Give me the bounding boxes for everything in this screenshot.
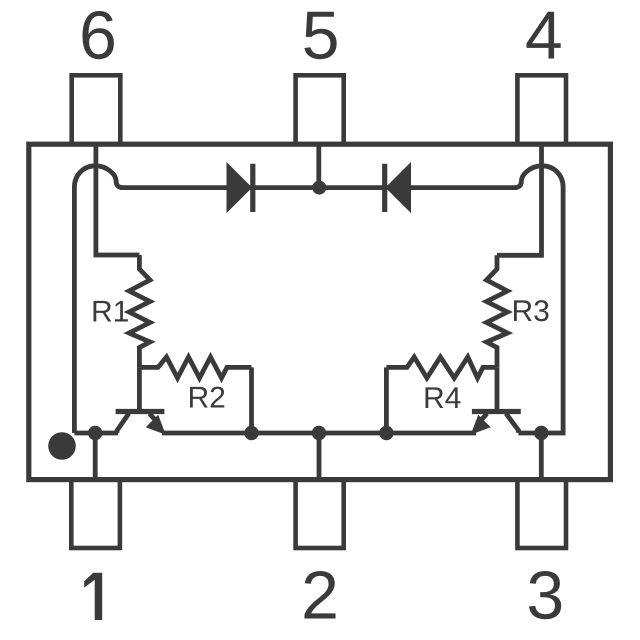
wire pin 1 lead — [93, 433, 98, 480]
wire Q2 base lead — [495, 367, 500, 411]
label R2 — [190, 387, 224, 408]
node R4-emitter junction — [379, 426, 393, 440]
pin 2 pad — [296, 480, 344, 548]
resistor R1 — [129, 255, 150, 367]
wire pin 4 lead with jog to R3 — [497, 144, 542, 255]
node C1 junction — [88, 426, 102, 440]
label R1 — [94, 301, 128, 322]
transistor Q2 collector lead — [506, 414, 519, 433]
wire collector bus right — [518, 431, 541, 436]
wire pin 2 lead — [317, 433, 322, 480]
diode D1 triangle — [228, 166, 250, 210]
transistor Q2 base bar — [472, 409, 521, 414]
pin number 4 — [527, 12, 561, 59]
resistor R2 — [141, 357, 252, 378]
wire pin 3 lead — [539, 433, 544, 480]
wire crossover bridge right (collector to diode bus) — [514, 166, 563, 433]
wire pin 5 lead — [316, 144, 321, 187]
pin 6 pad — [72, 75, 121, 144]
node R2-emitter junction — [244, 426, 258, 440]
pin number 1 — [84, 573, 102, 620]
pin 1 pad — [71, 480, 120, 548]
transistor Q1 emitter arrow — [148, 417, 165, 434]
resistor R4 — [386, 357, 497, 378]
resistor R3 — [487, 255, 508, 367]
wire Q1 base lead — [137, 367, 142, 411]
wire collector bus left — [74, 431, 118, 436]
label R3 — [514, 300, 549, 321]
wire emitter bus — [162, 431, 476, 436]
wire R4 to emitter bus — [384, 367, 389, 433]
wire crossover bridge left (collector to diode bus) — [74, 166, 123, 433]
pin number 3 — [529, 571, 561, 619]
transistor Q2 emitter arrow — [472, 417, 489, 434]
pin number 6 — [83, 11, 114, 59]
node pin5 junction — [312, 181, 326, 195]
pin 5 pad — [296, 75, 344, 144]
pin number 5 — [304, 12, 336, 60]
diode D1 cathode bar — [250, 164, 255, 212]
transistor Q1 emitter lead — [149, 414, 157, 423]
wire diode bus — [120, 185, 517, 190]
diode D2 cathode bar — [382, 164, 387, 212]
transistor Q1 base bar — [116, 409, 165, 414]
node pin2 junction — [312, 426, 326, 440]
transistor Q1 collector lead — [117, 414, 129, 433]
pin 3 pad — [517, 480, 566, 548]
node C2 junction — [534, 426, 548, 440]
pin number 2 — [305, 571, 336, 619]
package outline — [29, 144, 611, 479]
diode D2 triangle — [388, 166, 410, 210]
label R4 — [426, 387, 461, 408]
pin 4 pad — [517, 75, 566, 144]
wire pin 6 lead with jog to R1 — [96, 144, 139, 255]
pin 1 indicator dot — [48, 432, 76, 460]
wire R2 to emitter bus — [249, 367, 254, 433]
transistor Q2 emitter lead — [479, 414, 487, 423]
